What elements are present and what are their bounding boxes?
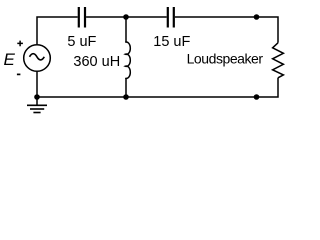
capacitor C1 5uF left plate — [78, 7, 80, 28]
capacitor C2 15uF left plate — [167, 7, 169, 28]
ground bar 3 — [33, 112, 40, 114]
AC source sine wave — [30, 54, 45, 60]
wire top right segment — [175, 17, 278, 43]
resistor bottom lead wire — [37, 78, 278, 97]
junction dot ground node — [34, 94, 40, 100]
wire top middle segment — [86, 16, 167, 18]
junction dot node A top (inductor/top wire) — [123, 14, 129, 20]
junction dot node B bottom (inductor/bottom wire) — [123, 94, 129, 100]
inductor L1 top lead wire — [125, 17, 127, 43]
ground bar 1 — [27, 104, 47, 106]
svg-text:15 uF: 15 uF — [153, 34, 190, 50]
wire top-left segment — [37, 17, 78, 44]
minus sign — [17, 73, 21, 75]
svg-text:Loudspeaker: Loudspeaker — [187, 50, 264, 66]
ground bar 2 — [30, 108, 44, 110]
capacitor C2 15uF right plate — [173, 7, 175, 28]
capacitor C1 5uF right plate — [84, 7, 86, 28]
junction dot bottom right terminal — [254, 94, 260, 100]
inductor L1 bottom lead wire — [125, 78, 127, 97]
svg-text:360 uH: 360 uH — [73, 54, 120, 70]
wire source bottom lead — [36, 72, 38, 97]
junction dot top right terminal — [254, 14, 260, 20]
plus sign — [17, 41, 23, 47]
AC source E circle — [24, 45, 51, 72]
inductor L1 coil — [125, 42, 130, 78]
svg-text:E: E — [4, 50, 16, 69]
svg-text:5 uF: 5 uF — [67, 34, 96, 50]
resistor (loudspeaker) zigzag — [273, 43, 284, 78]
ground stub — [36, 97, 38, 105]
